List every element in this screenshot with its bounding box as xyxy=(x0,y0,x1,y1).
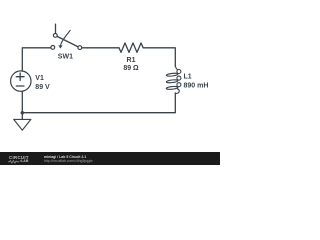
resistor R1 xyxy=(119,43,143,52)
svg-text:890 mH: 890 mH xyxy=(184,82,209,89)
switch SW1 handle stub xyxy=(55,24,57,33)
svg-text:89 V: 89 V xyxy=(35,84,50,91)
wire top-left horizontal xyxy=(22,48,50,71)
CircuitLab logo xyxy=(9,156,29,160)
footer text line 1 xyxy=(44,156,86,159)
switch SW1 arrow xyxy=(61,30,71,45)
svg-text:SW1: SW1 xyxy=(58,54,73,61)
svg-text:R1: R1 xyxy=(127,57,136,64)
svg-text:V1: V1 xyxy=(35,75,44,82)
ground stub xyxy=(21,113,23,120)
junction node xyxy=(21,111,25,115)
voltage source V1 xyxy=(11,71,31,91)
footer bar xyxy=(0,152,220,165)
wire resistor to top-right corner xyxy=(143,48,175,67)
wire switch to resistor xyxy=(82,47,119,49)
ground xyxy=(14,119,31,130)
switch SW1 lever xyxy=(57,37,77,47)
footer text line 2 xyxy=(44,160,93,163)
switch terminals xyxy=(51,46,55,50)
svg-text:89 Ω: 89 Ω xyxy=(123,65,139,72)
svg-text:L1: L1 xyxy=(184,73,192,80)
inductor L1 xyxy=(166,66,181,93)
wire V1 bottom to junction xyxy=(21,91,23,113)
wire inductor down to bottom-right corner xyxy=(22,93,175,113)
switch arrowhead xyxy=(58,45,62,48)
labels xyxy=(35,54,208,92)
